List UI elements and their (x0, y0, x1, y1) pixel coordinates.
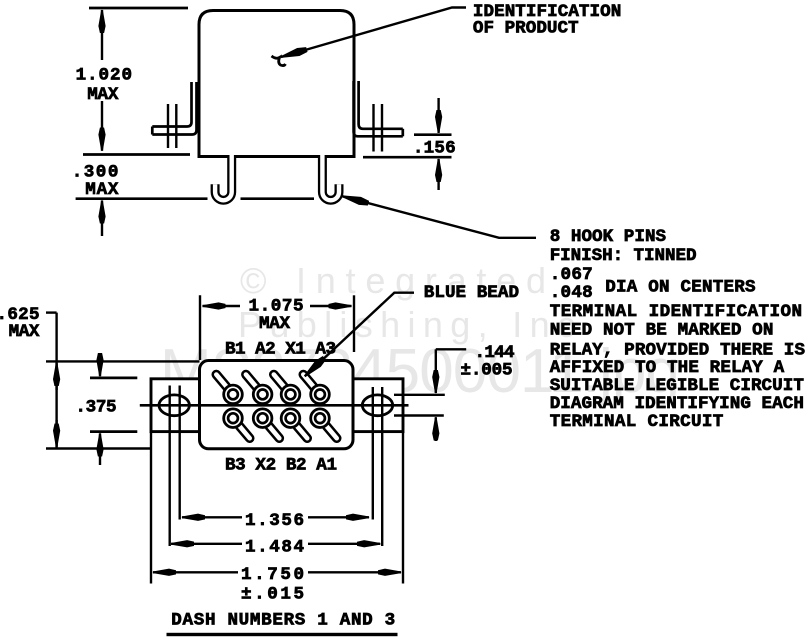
dimension .156: lower extension line (363, 156, 452, 159)
leader arrow: 8 hook pins (343, 196, 537, 238)
dimension 1.075 MAX: dimension line with arrows (203, 305, 241, 307)
flange edge extension lines (1.750) (150, 432, 152, 584)
identification squiggle mark on case (272, 56, 286, 66)
svg-text:8 HOOK PINS: 8 HOOK PINS (550, 227, 667, 247)
svg-text:MAX: MAX (85, 180, 119, 200)
leader arrow: blue bead (305, 293, 414, 377)
horizontal centerline (140, 404, 409, 407)
pin bottom row: ring+slot X2 (253, 409, 279, 438)
svg-text:BLUE BEAD: BLUE BEAD (424, 283, 519, 303)
svg-text:MAX: MAX (87, 85, 119, 105)
dimension .156: outside arrows (437, 98, 439, 133)
dimension .300 MAX: lower outside arrow (101, 201, 103, 237)
svg-text:TERMINAL IDENTIFICATION: TERMINAL IDENTIFICATION (550, 302, 802, 322)
extension lines through right hole (1.356 / 1.484) (372, 387, 374, 520)
dimension .375: outside arrows (99, 355, 101, 376)
svg-text:NEED NOT BE MARKED ON: NEED NOT BE MARKED ON (550, 321, 774, 341)
pin top row: slot+ring A2 (246, 375, 272, 404)
pin bottom row: ring+slot B3 (224, 409, 250, 438)
svg-text:MAX: MAX (9, 322, 40, 342)
svg-text:B1 A2 X1 A3: B1 A2 X1 A3 (225, 339, 336, 359)
mounting bracket left (side view) (152, 82, 191, 127)
caption underline (167, 633, 398, 636)
dimension 1.750 ±.015: dimension line with arrows (153, 571, 238, 573)
svg-text:DASH NUMBERS 1 AND 3: DASH NUMBERS 1 AND 3 (171, 610, 395, 630)
svg-text:DIA ON CENTERS: DIA ON CENTERS (605, 278, 756, 298)
extension lines through left hole (1.356 / 1.484) (168, 386, 170, 547)
dimension 1.020 MAX: dimension line with arrows (101, 10, 103, 60)
bracket right tick marks (374, 104, 383, 152)
svg-text:OF PRODUCT: OF PRODUCT (473, 19, 579, 39)
hook pin left (side view) (215, 156, 232, 200)
pin top row: slot+ring B1 (216, 375, 242, 404)
dimension .375: extension lines (90, 377, 137, 380)
dimension .156: upper extension line (414, 133, 452, 136)
svg-text:TERMINAL CIRCUIT: TERMINAL CIRCUIT (550, 412, 724, 432)
pin bottom row: ring+slot A1 (311, 409, 337, 438)
dimension 1.075 MAX: extension lines (199, 295, 201, 360)
relay case (side view) (199, 11, 354, 157)
svg-text:1.484: 1.484 (245, 537, 304, 557)
relay body outline (bottom view) (200, 361, 354, 449)
svg-text:±.015: ±.015 (241, 584, 304, 604)
svg-text:.048: .048 (550, 283, 593, 303)
svg-text:FINISH: TINNED: FINISH: TINNED (550, 246, 697, 266)
svg-text:.375: .375 (75, 397, 116, 417)
dimension 1.356: dimension line with arrows (182, 516, 242, 518)
mounting hole left (159, 395, 189, 416)
pin top row: slot+ring A3 (303, 375, 329, 404)
svg-text:1.750: 1.750 (241, 565, 304, 585)
dimension .625 MAX: extension lines (46, 360, 200, 362)
mounting flange plate (bottom view) (151, 379, 403, 432)
dimension .144: extension lines (394, 394, 445, 396)
svg-text:.156: .156 (413, 138, 456, 158)
pin top row: slot+ring X1 (274, 375, 300, 404)
svg-text:1.356: 1.356 (245, 511, 304, 531)
dimension 1.020 MAX: top extension line (89, 7, 188, 10)
mounting hole right (362, 395, 392, 416)
pin bottom row: ring+slot B2 (281, 409, 307, 438)
svg-text:B3 X2 B2 A1: B3 X2 B2 A1 (225, 455, 337, 475)
dimension 1.020 MAX: extension line at case bottom (83, 153, 190, 156)
extension line under hooks (.300 bottom) (76, 197, 314, 200)
bracket left tick marks (168, 104, 176, 148)
leader arrow: identification of product (281, 8, 466, 58)
svg-text:±.005: ±.005 (461, 360, 513, 380)
mounting bracket right (side view) (359, 81, 403, 129)
dimension 1.484: dimension line with arrows (171, 543, 242, 545)
svg-text:MAX: MAX (259, 314, 290, 334)
hook pin right (side view) (322, 156, 339, 200)
dimension .625 MAX: leader and dimension line (46, 311, 57, 313)
svg-text:1.020: 1.020 (76, 65, 132, 85)
dimension .144: leader and outside arrows (436, 348, 466, 350)
